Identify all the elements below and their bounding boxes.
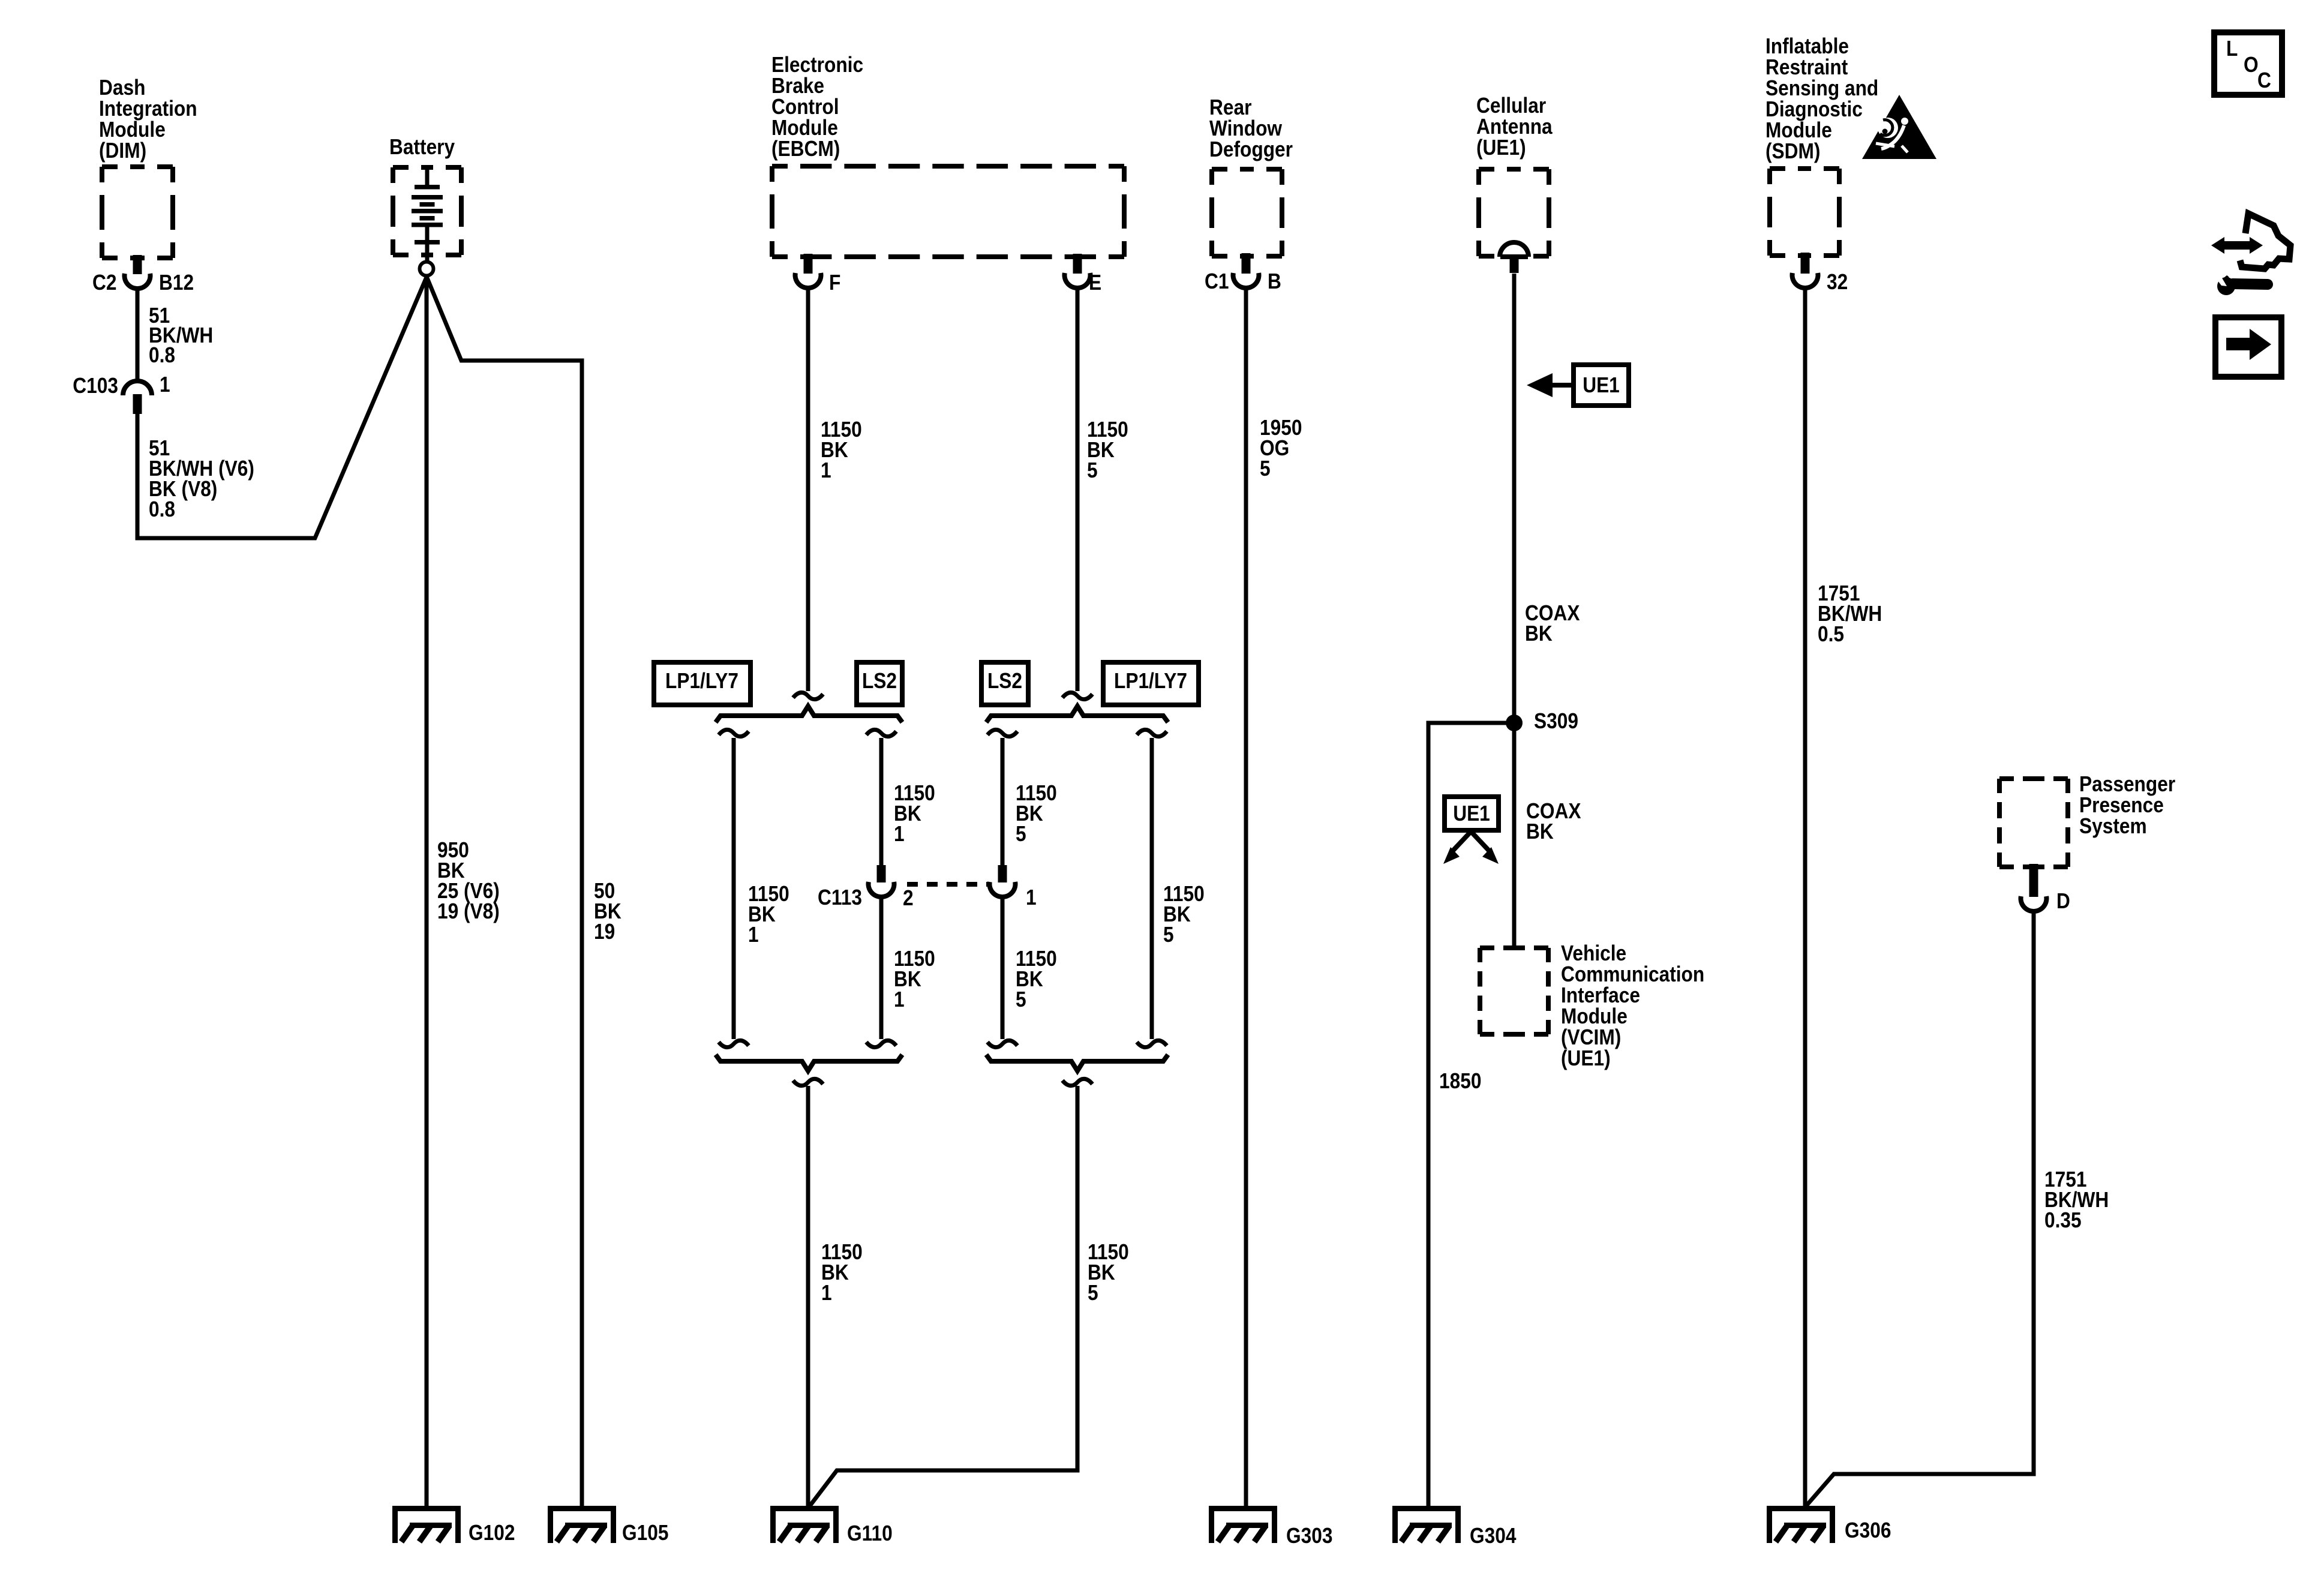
svg-text:C103: C103 [73,374,118,398]
svg-text:C: C [2257,68,2271,92]
svg-text:1850: 1850 [1439,1069,1481,1093]
svg-text:C2: C2 [92,271,116,295]
svg-text:B: B [1268,269,1281,293]
svg-text:G105: G105 [622,1521,668,1545]
svg-text:LS2: LS2 [862,669,897,693]
svg-text:G304: G304 [1470,1524,1517,1548]
svg-text:G102: G102 [469,1521,515,1545]
svg-text:E: E [1089,271,1101,295]
svg-text:D: D [2056,889,2070,913]
svg-text:LP1/LY7: LP1/LY7 [1114,669,1187,693]
svg-text:LP1/LY7: LP1/LY7 [665,669,738,693]
svg-text:L: L [2226,37,2238,61]
svg-text:G110: G110 [847,1521,893,1545]
svg-text:Battery: Battery [389,135,455,159]
svg-text:C113: C113 [818,885,862,909]
svg-text:O: O [2244,53,2259,77]
svg-text:32: 32 [1827,270,1848,294]
svg-text:UE1: UE1 [1453,801,1490,825]
svg-text:UE1: UE1 [1583,373,1620,397]
svg-text:1: 1 [160,373,170,397]
svg-text:G306: G306 [1845,1518,1891,1542]
svg-text:C1: C1 [1205,269,1229,293]
svg-text:G303: G303 [1286,1524,1332,1548]
svg-text:S309: S309 [1534,709,1578,733]
svg-text:1: 1 [1026,885,1037,909]
svg-text:LS2: LS2 [987,669,1022,693]
svg-text:2: 2 [903,886,914,910]
svg-text:B12: B12 [159,271,194,295]
svg-text:F: F [829,271,840,295]
